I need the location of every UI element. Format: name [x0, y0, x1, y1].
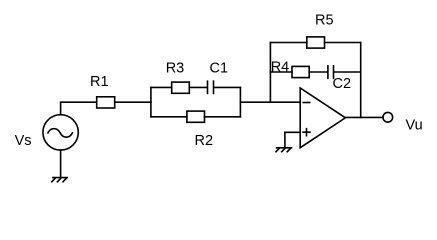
wire C2 to right vertical — [334, 71, 361, 73]
wire R2 to right node — [205, 116, 241, 118]
resistor R1 — [97, 97, 115, 108]
sine wave inside Vs — [48, 129, 73, 138]
feedback right vertical wire — [360, 43, 362, 118]
node left of parallel network — [150, 87, 152, 116]
op-amp minus sign — [303, 102, 310, 104]
wire Vs bottom to ground — [60, 150, 62, 177]
wire to op-amp inverting input — [240, 101, 300, 103]
svg-text:R4: R4 — [271, 60, 290, 76]
ground (Vs) — [52, 178, 68, 182]
resistor R5 — [307, 37, 325, 48]
node right of parallel network — [239, 87, 241, 116]
svg-text:Vs: Vs — [15, 133, 32, 149]
svg-text:C2: C2 — [333, 76, 352, 92]
output wire — [345, 116, 383, 118]
capacitor C1 — [208, 81, 214, 93]
capacitor C2 — [328, 66, 334, 79]
wire R5 to right vertical — [325, 42, 361, 44]
op-amp plus sign — [303, 129, 310, 136]
svg-text:R1: R1 — [90, 74, 109, 90]
op-amp U1 — [300, 88, 345, 148]
wire R1 to parallel box — [115, 101, 151, 103]
feedback left vertical wire — [269, 43, 271, 103]
wire Vs top to main wire — [61, 102, 97, 115]
svg-text:R2: R2 — [195, 133, 214, 149]
ground (op-amp +) — [276, 148, 292, 152]
wire to R5 — [270, 42, 306, 44]
wire bottom branch left — [151, 116, 187, 118]
svg-text:Vu: Vu — [406, 118, 423, 134]
voltage source Vs — [43, 115, 78, 150]
resistor R2 — [187, 111, 205, 122]
output terminal circle — [383, 112, 393, 122]
wire to R4 — [270, 71, 292, 73]
wire R3 to C1 — [189, 86, 207, 88]
wire top branch left — [151, 86, 172, 88]
svg-text:R5: R5 — [315, 13, 334, 29]
svg-text:C1: C1 — [210, 61, 229, 77]
resistor R4 — [292, 66, 309, 77]
svg-text:R3: R3 — [166, 61, 185, 77]
wire op-amp + input to ground — [285, 132, 300, 147]
wire R4 to C2 — [309, 71, 327, 73]
resistor R3 — [172, 82, 190, 93]
wire C1 to right node — [214, 86, 240, 88]
